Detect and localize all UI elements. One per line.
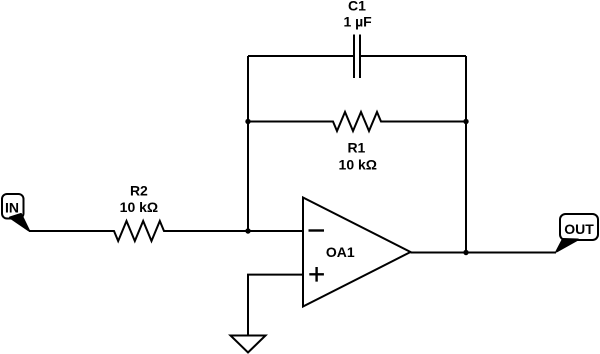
svg-text:OUT: OUT — [564, 221, 594, 237]
svg-text:C1: C1 — [348, 0, 366, 14]
svg-text:1 µF: 1 µF — [343, 13, 372, 29]
svg-text:IN: IN — [5, 199, 19, 215]
svg-text:OA1: OA1 — [326, 244, 355, 260]
svg-text:R1: R1 — [347, 139, 365, 155]
svg-text:10 kΩ: 10 kΩ — [339, 157, 377, 173]
svg-text:R2: R2 — [130, 183, 148, 199]
svg-text:10 kΩ: 10 kΩ — [120, 199, 158, 215]
